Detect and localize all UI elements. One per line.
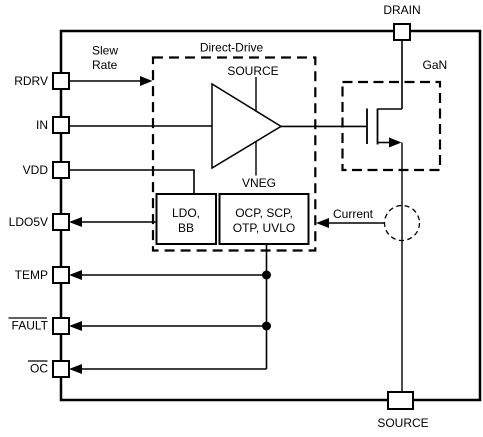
svg-text:DRAIN: DRAIN xyxy=(383,3,420,17)
svg-text:OCP, SCP,: OCP, SCP, xyxy=(235,206,293,220)
svg-text:VDD: VDD xyxy=(23,163,49,177)
svg-text:Rate: Rate xyxy=(92,58,118,72)
svg-text:BB: BB xyxy=(178,221,194,235)
svg-text:LDO5V: LDO5V xyxy=(9,215,48,229)
svg-text:OTP, UVLO: OTP, UVLO xyxy=(233,221,295,235)
svg-text:TEMP: TEMP xyxy=(15,268,48,282)
svg-text:OC: OC xyxy=(30,362,48,376)
svg-text:IN: IN xyxy=(36,118,48,132)
svg-text:SOURCE: SOURCE xyxy=(377,416,428,430)
svg-text:Current: Current xyxy=(333,207,374,221)
svg-text:LDO,: LDO, xyxy=(172,206,200,220)
svg-text:VNEG: VNEG xyxy=(242,176,276,190)
svg-text:GaN: GaN xyxy=(423,58,448,72)
svg-text:Direct-Drive: Direct-Drive xyxy=(200,41,264,55)
svg-text:RDRV: RDRV xyxy=(14,74,48,88)
svg-text:Slew: Slew xyxy=(92,44,118,58)
svg-text:FAULT: FAULT xyxy=(12,319,49,333)
svg-text:SOURCE: SOURCE xyxy=(227,64,278,78)
